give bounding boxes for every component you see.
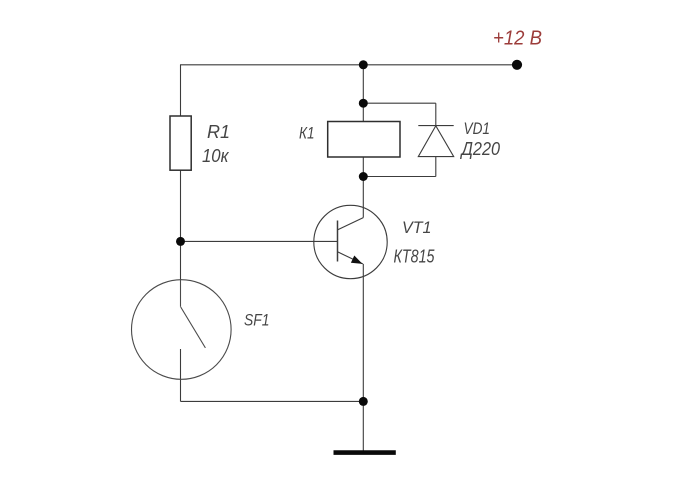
svg-text:КТ815: КТ815 — [394, 247, 436, 267]
svg-text:VD1: VD1 — [464, 119, 491, 138]
svg-text:10к: 10к — [202, 146, 230, 166]
svg-text:SF1: SF1 — [244, 311, 270, 330]
svg-text:К1: К1 — [299, 124, 315, 143]
svg-text:+12 В: +12 В — [493, 28, 542, 50]
svg-text:Д220: Д220 — [460, 138, 501, 159]
svg-text:VT1: VT1 — [402, 219, 432, 237]
svg-text:R1: R1 — [207, 122, 230, 142]
